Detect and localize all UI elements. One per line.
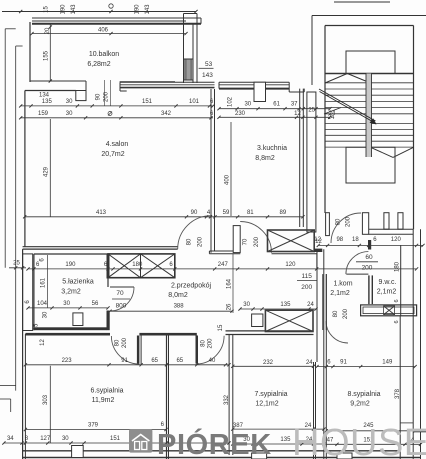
svg-text:135: 135 <box>280 302 291 308</box>
svg-text:61: 61 <box>273 102 280 108</box>
kitchen door leaf + arc 70/200 <box>233 222 271 253</box>
building right edge <box>400 229 426 459</box>
svg-text:115: 115 <box>302 273 313 280</box>
svg-text:180: 180 <box>132 262 143 268</box>
room label 4.salon <box>101 141 128 158</box>
left shaft column <box>23 254 33 331</box>
svg-text:2,1m2: 2,1m2 <box>377 289 397 296</box>
sink square <box>73 313 83 326</box>
svg-text:7.sypialnia: 7.sypialnia <box>254 391 287 398</box>
entrance piers <box>326 213 403 236</box>
svg-text:24: 24 <box>306 360 313 366</box>
svg-text:24: 24 <box>328 115 335 121</box>
svg-text:120: 120 <box>285 262 296 268</box>
salon left wall <box>24 119 26 247</box>
lazienka walls <box>34 254 110 330</box>
svg-text:90: 90 <box>191 210 198 216</box>
svg-text:2,1m2: 2,1m2 <box>330 290 350 297</box>
bedroom7 dims 232/24 <box>231 360 315 368</box>
svg-text:9,2m2: 9,2m2 <box>350 401 370 408</box>
svg-text:143: 143 <box>145 4 151 15</box>
small square bedroom7 top <box>252 314 263 327</box>
dims 265/30/135/24 row <box>226 302 317 311</box>
kitchen vertical dim 400 <box>225 122 232 216</box>
lazienka vertical dim 161 <box>40 255 48 308</box>
svg-text:15: 15 <box>44 6 50 13</box>
svg-text:65: 65 <box>151 358 158 364</box>
bedroom7 dim 387/24 <box>231 423 325 431</box>
neighbor balcony lines bottom-left <box>0 386 16 413</box>
svg-text:81: 81 <box>247 210 254 216</box>
balcony floor edge <box>30 80 175 83</box>
svg-text:12: 12 <box>294 111 301 117</box>
balcony door leaf <box>76 80 112 116</box>
svg-text:230: 230 <box>235 111 246 117</box>
bedroom8 bottom dims 47/151/44 <box>322 438 422 446</box>
svg-text:6: 6 <box>394 320 400 323</box>
svg-text:34: 34 <box>7 436 14 442</box>
bedroom6 north wall <box>25 333 196 346</box>
stair flight top edge <box>325 73 414 75</box>
svg-text:104: 104 <box>37 301 48 307</box>
dim row 98/18/6/120 <box>314 237 424 247</box>
svg-text:6.sypialnia: 6.sypialnia <box>90 388 123 395</box>
przedpokoj dim 388 <box>108 304 233 313</box>
svg-text:89: 89 <box>280 210 287 216</box>
svg-text:30: 30 <box>66 99 73 105</box>
svg-text:91: 91 <box>121 358 128 364</box>
svg-text:161: 161 <box>41 277 47 288</box>
svg-text:30: 30 <box>66 111 73 117</box>
stair center rails <box>366 74 372 158</box>
svg-text:151: 151 <box>110 436 121 442</box>
balcony vertical dim 155 <box>44 24 52 83</box>
svg-text:30: 30 <box>243 302 250 308</box>
stair break line top <box>325 74 371 84</box>
room label 8.sypialnia <box>347 391 380 408</box>
svg-text:18: 18 <box>352 237 359 243</box>
svg-text:8,0m2: 8,0m2 <box>168 292 188 299</box>
svg-text:20,7m2: 20,7m2 <box>101 151 124 158</box>
bedroom6 door leaf + arc 80/200 <box>111 336 139 365</box>
svg-text:3,2m2: 3,2m2 <box>61 289 81 296</box>
balcony inner dimension 20 / 406 <box>30 27 187 35</box>
bedroom7 door leaf + arc 80/200 <box>196 336 225 365</box>
svg-text:200: 200 <box>343 308 349 319</box>
svg-text:151: 151 <box>142 99 153 105</box>
svg-text:413: 413 <box>96 210 107 216</box>
svg-text:232: 232 <box>263 360 274 366</box>
svg-text:190: 190 <box>135 4 141 15</box>
shaft between kitchen and stairs <box>307 92 316 232</box>
dim 25 left edge <box>9 261 26 270</box>
svg-text:59: 59 <box>223 210 230 216</box>
svg-text:80: 80 <box>114 339 120 346</box>
kitchen dim 101/6/102 row <box>196 96 234 112</box>
svg-text:5.łazienka: 5.łazienka <box>62 279 94 286</box>
svg-text:400: 400 <box>225 174 231 185</box>
kitchen north window wall <box>219 82 304 101</box>
wall below kitchen left <box>209 251 240 254</box>
svg-text:25: 25 <box>308 108 315 114</box>
label 115/200 <box>297 273 317 291</box>
dimension row 6/190/6/180/6/247/120 <box>26 254 418 271</box>
svg-text:120: 120 <box>391 237 402 243</box>
svg-text:200: 200 <box>122 337 128 348</box>
svg-text:98: 98 <box>336 237 343 243</box>
svg-text:30: 30 <box>43 311 49 318</box>
stair direction arrow <box>319 89 377 125</box>
entrance area wall bits <box>314 249 323 362</box>
right exterior labels 80/200 <box>0 0 1 1</box>
room label 2.przedpokoj <box>168 283 211 300</box>
bedroom6 vertical dim 303 <box>43 366 50 443</box>
svg-text:6,28m2: 6,28m2 <box>87 61 110 68</box>
svg-text:200: 200 <box>254 236 260 247</box>
svg-text:53: 53 <box>205 61 213 68</box>
svg-text:91: 91 <box>340 360 347 366</box>
svg-text:149: 149 <box>382 360 393 366</box>
bedroom6 bottom dims 34/8/127/30/151 <box>2 422 230 445</box>
corridor piers x 226-233 <box>229 335 233 456</box>
svg-text:70: 70 <box>116 290 124 297</box>
wall bedroom6/7 <box>167 335 169 459</box>
svg-text:200: 200 <box>362 265 373 272</box>
svg-text:HOUSE: HOUSE <box>292 422 426 459</box>
kom door arc 80/200 <box>326 308 349 343</box>
svg-text:332: 332 <box>224 394 230 405</box>
svg-text:30: 30 <box>63 301 70 307</box>
left wall lower (bedroom6) <box>23 249 26 459</box>
dimension 134 135 (left) <box>39 93 50 99</box>
svg-text:180: 180 <box>394 261 400 272</box>
svg-text:80: 80 <box>186 238 192 245</box>
svg-text:10.balkon: 10.balkon <box>89 51 119 58</box>
dimension row 135/30 & 151/101/6 <box>19 99 215 108</box>
bedroom8 top dims 6/91/149 <box>315 360 416 369</box>
svg-text:159: 159 <box>38 111 49 117</box>
balcony left wall <box>29 22 31 82</box>
svg-text:12,1m2: 12,1m2 <box>255 401 278 408</box>
svg-text:134: 134 <box>39 93 50 99</box>
svg-text:247: 247 <box>218 262 229 268</box>
stair lower landing box <box>346 147 395 183</box>
svg-text:200: 200 <box>208 338 214 349</box>
bottom exterior wall <box>23 446 420 459</box>
room label 6.sypialnia <box>90 388 123 405</box>
svg-text:342: 342 <box>161 111 172 117</box>
svg-text:6: 6 <box>394 299 400 302</box>
svg-text:80: 80 <box>201 340 207 347</box>
dimension line top row <box>2 4 198 15</box>
svg-text:24: 24 <box>307 302 314 308</box>
svg-text:135: 135 <box>42 99 53 105</box>
bedroom7 bottom dims 30/135/24 <box>231 437 325 446</box>
svg-text:PIÓREK: PIÓREK <box>157 427 272 459</box>
svg-text:60: 60 <box>365 254 373 261</box>
svg-text:164: 164 <box>227 278 233 289</box>
room label 1.kom <box>330 281 352 298</box>
svg-text:102: 102 <box>228 96 234 107</box>
svg-text:190: 190 <box>65 262 76 268</box>
svg-text:80: 80 <box>333 310 339 317</box>
wall bedroom7/8 <box>314 249 327 459</box>
balcony right wall + pier <box>184 14 198 84</box>
wc south wall band with shaft <box>361 299 417 323</box>
svg-text:190: 190 <box>61 4 67 15</box>
wardrobe X-box przedpokoj right <box>268 230 323 252</box>
svg-text:200: 200 <box>301 284 312 291</box>
stair treads lower <box>325 124 414 148</box>
svg-text:30: 30 <box>62 436 69 442</box>
stair upper landing box <box>346 51 395 74</box>
svg-text:1.kom: 1.kom <box>333 281 352 288</box>
svg-text:56: 56 <box>92 301 99 307</box>
svg-text:143: 143 <box>71 4 77 15</box>
stairwell outer walls <box>325 26 414 230</box>
svg-text:26: 26 <box>226 303 232 310</box>
wardrobe X-box przedpokoj left <box>108 254 175 278</box>
svg-text:200: 200 <box>346 216 352 227</box>
salon door arc 80/200 <box>178 216 211 249</box>
svg-text:90: 90 <box>96 93 102 100</box>
kom left wall <box>323 274 327 330</box>
bedroom8 dim 245 <box>325 423 417 432</box>
bedroom8 right wall <box>399 316 401 459</box>
bottom dimension row 413/90/4/59/81/89 <box>23 210 305 219</box>
svg-text:3.kuchnia: 3.kuchnia <box>257 145 287 152</box>
room label 3.kuchnia <box>255 145 287 162</box>
salon north wall <box>25 91 76 120</box>
building outline above stairwell <box>312 2 426 85</box>
bedroom6 dim 379 <box>24 423 168 432</box>
svg-text:2.przedpokój: 2.przedpokój <box>171 283 212 290</box>
svg-text:12: 12 <box>40 339 46 346</box>
svg-text:25: 25 <box>13 261 20 267</box>
svg-text:388: 388 <box>174 304 185 310</box>
svg-text:101: 101 <box>189 99 200 105</box>
svg-text:200: 200 <box>197 236 203 247</box>
room label 10.balkon <box>87 51 119 68</box>
svg-text:429: 429 <box>44 166 50 177</box>
svg-text:4.salon: 4.salon <box>106 141 129 148</box>
room label 9.w.c. <box>377 279 397 296</box>
svg-text:135: 135 <box>280 437 291 443</box>
salon vertical dimension 4295 <box>44 119 51 217</box>
outer boundary left lines <box>5 29 22 391</box>
svg-text:15: 15 <box>218 324 224 331</box>
svg-text:379: 379 <box>88 423 99 429</box>
svg-text:8,8m2: 8,8m2 <box>255 155 275 162</box>
dim row 223/91/65/65/40 <box>24 358 231 367</box>
svg-text:70: 70 <box>243 238 249 245</box>
wc door leaf + arc 60/200 <box>346 252 378 275</box>
salon right wall (salon/kitchen) <box>211 89 215 253</box>
svg-text:800: 800 <box>116 303 127 310</box>
watermark house icon <box>129 429 152 453</box>
room label 7.sypialnia <box>254 391 287 408</box>
kitchen right wall <box>300 89 304 227</box>
svg-text:37: 37 <box>291 102 298 108</box>
svg-text:30: 30 <box>244 102 251 108</box>
svg-text:223: 223 <box>62 358 73 364</box>
stair hall south wall <box>369 229 414 234</box>
wardrobe X-box bedroom7 top <box>265 310 313 331</box>
svg-text:8.sypialnia: 8.sypialnia <box>347 391 380 398</box>
dimension row 159/30 & 342/6 <box>19 111 214 119</box>
wc right wall <box>400 245 402 316</box>
wall salon-przedpokoj <box>23 247 178 249</box>
svg-text:40: 40 <box>209 358 216 364</box>
watermark text PIOREKHOUSE <box>157 422 426 459</box>
dimension 53 / 143 <box>199 61 214 79</box>
przedpokoj south wall right part <box>226 331 314 335</box>
svg-text:80: 80 <box>336 218 342 225</box>
balcony top wall <box>32 18 201 24</box>
kitchen top dims 102/30/61/37/25 and 230/12/24 <box>217 102 336 119</box>
salon north window band right of door <box>120 82 215 91</box>
bedroom6/7 closet bay lines <box>141 335 168 365</box>
svg-text:12: 12 <box>314 237 321 243</box>
lazienka door leaf + arc <box>110 287 134 311</box>
svg-text:15: 15 <box>34 323 40 330</box>
stair treads upper <box>325 83 414 114</box>
lazienka dim row 104/30/56 <box>25 300 110 319</box>
entrance door arc 80/200 <box>331 213 361 243</box>
svg-text:155: 155 <box>44 50 50 61</box>
svg-text:406: 406 <box>98 28 109 34</box>
svg-text:127: 127 <box>40 436 51 442</box>
svg-text:9.w.c.: 9.w.c. <box>379 279 397 286</box>
wall below przedpokoj X-box <box>272 252 318 254</box>
svg-text:303: 303 <box>43 394 49 405</box>
stair break line bottom <box>371 147 414 157</box>
room label 5.lazienka <box>61 279 94 296</box>
svg-text:143: 143 <box>202 72 213 79</box>
wc west wall stub <box>368 240 372 304</box>
svg-text:65: 65 <box>176 358 183 364</box>
svg-text:11,9m2: 11,9m2 <box>92 397 115 404</box>
